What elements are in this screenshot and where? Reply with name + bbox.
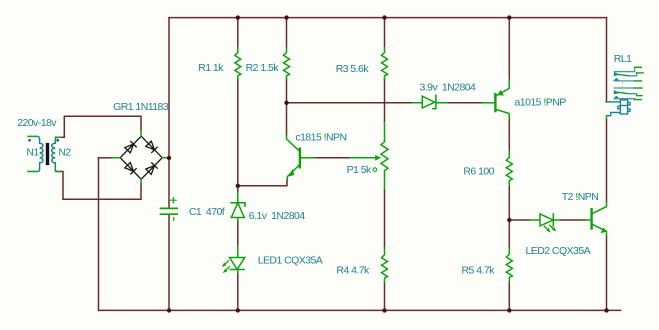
wire bridge minus horizontal [99,157,113,159]
bridge vertex stubs green [112,130,169,184]
resistor R4 [382,248,388,283]
wire R3 column top [384,18,386,48]
svg-text:LED1 CQX35A: LED1 CQX35A [258,255,323,267]
wire R2 column top [286,18,288,48]
potentiometer P1 [381,122,388,189]
wire left vertical from bridge minus to bottom rail [98,158,100,311]
LED2 [529,214,561,226]
transistor Q1 emitter arrow [288,168,295,177]
transistor Q2 emitter arrow PNP [497,90,504,96]
wire diode D2 to a1015 base [447,102,482,104]
wire R1 bottom to emitter node [237,79,239,186]
wire P1 bottom to R4 top [384,189,386,248]
svg-text:6.1v 1N2804: 6.1v 1N2804 [249,210,306,222]
capacitor C1 minus tick [173,218,175,221]
transformer N2 terminal stubs [56,137,61,171]
wire c1815 base to P1 wiper middle segment [315,157,351,159]
wire relay coil bottom to T2 collector [606,119,608,202]
bridge rectifier GR1 diamond [120,136,162,179]
relay RL1 coil rectangle [618,100,631,114]
transformer phase dot N2 [56,139,59,142]
wire transformer N2 top to bridge top vertex [61,116,142,137]
wire base node to diode D2 [287,102,414,104]
transistor Q1 c1815 base lead [300,157,315,159]
resistor R2 [284,48,290,80]
svg-text:RL1: RL1 [614,53,632,65]
bridge diode top-right [146,141,157,152]
svg-text:R4 4.7k: R4 4.7k [336,264,370,276]
wire emitter node horizontal [238,180,287,186]
wire a1015 collector to R6 [508,119,510,152]
transformer phase dot N1 [28,139,31,142]
transistor Q1 c1815 body bar [299,149,301,168]
transistor Q3 T2 body bar [590,209,592,228]
svg-text:GR1 1N1183: GR1 1N1183 [113,101,169,113]
transistor Q1 c1815 emitter lead [287,166,298,180]
svg-text:R2 1.5k: R2 1.5k [246,62,280,74]
wire LED2 node to LED2 anode [509,219,529,221]
resistor R6 [506,151,512,185]
svg-text:LED2 CQX35A: LED2 CQX35A [526,245,591,257]
wire bottom ground rail [99,309,621,311]
svg-text:220v-18v: 220v-18v [17,117,57,129]
svg-text:c1815 !NPN: c1815 !NPN [295,131,346,143]
bridge diode top-left [125,141,136,152]
relay RL1 contact 2 lower throw [614,96,620,99]
transistor Q1 c1815 collector lead [287,135,299,150]
LED2 light arrows [544,225,554,230]
relay RL1 contact 1 lower throw [614,78,620,81]
wire R5 bottom to ground rail [508,282,510,311]
capacitor C1 [161,208,178,214]
svg-text:T2 !NPN: T2 !NPN [562,191,598,203]
svg-text:a1015 !PNP: a1015 !PNP [515,97,567,109]
relay RL1 contact 1 arm [614,72,620,76]
wire relay column from top rail to coil left [606,18,608,102]
zener diode D1 6.1v [231,193,245,221]
relay RL1 contact 2 upper throw [615,87,635,89]
relay RL1 coil bottom wire [607,113,621,116]
wire top positive rail [169,17,607,19]
wire R3 bottom to P1 top [384,79,386,122]
svg-text:R5 4.7k: R5 4.7k [462,265,496,277]
svg-text:C1 470f: C1 470f [189,206,225,218]
LED1 [230,246,245,273]
resistor R5 [506,249,512,282]
wire T2 emitter to ground rail [606,236,608,310]
transistor Q2 a1015 base lead [483,102,495,104]
transistor Q3 T2 emitter lead [593,225,607,237]
wire LED2 cathode to T2 base [561,219,585,221]
svg-text:R3 5.6k: R3 5.6k [336,63,370,75]
potentiometer P1 wiper circle mark [373,168,377,172]
resistor R1 [235,48,241,80]
transformer TR primary winding N1 [35,136,43,171]
LED1 light arrows [224,261,229,271]
transistor Q3 emitter arrow [601,228,607,234]
wire zener D1 top stub maroon [237,186,239,193]
svg-text:N2: N2 [58,147,71,159]
transistor Q2 a1015 collector lead [497,110,510,119]
transformer N1 terminal stubs [28,136,35,171]
bridge diode bottom-right [146,163,157,174]
transistor Q2 a1015 emitter lead [497,80,510,95]
svg-text:R6 100: R6 100 [463,165,494,177]
svg-text:P1 5k: P1 5k [347,164,372,176]
wire LED1 to ground rail [237,273,239,310]
relay RL1 contact 2 arm [614,90,620,94]
wire a1015 emitter column top [508,18,510,81]
relay RL1 contact 1 upper throw [615,67,635,71]
relay RL1 linkage dashes [622,83,624,102]
wire main left vertical x169 top rail to cap [168,18,170,208]
svg-text:3.9v 1N2804: 3.9v 1N2804 [420,81,477,93]
wire LED2 node to R5 top [508,220,510,249]
transistor Q3 T2 collector lead [593,202,607,213]
wire base node down to c1815 collector [286,103,288,135]
wire R1 column top [237,18,239,48]
wire transformer N2 bottom to bridge bottom vertex [61,172,142,200]
wire zener D1 to LED1 [237,221,239,246]
transistor Q2 a1015 body bar [494,94,496,111]
zener diode D2 3.9v [413,95,447,108]
wire R6 bottom to LED2 node [508,185,510,220]
resistor R3 [382,48,388,80]
relay RL1 coil left wire [610,101,620,103]
wire cap C1 bottom to ground rail [168,215,170,311]
wire R4 bottom to ground rail [384,283,386,311]
svg-text:N1: N1 [26,147,39,159]
wire R2 bottom to base node [286,79,288,103]
potentiometer P1 wiper arrow [351,157,378,159]
svg-text:R1 1k: R1 1k [198,62,224,74]
transformer core bar [46,143,49,165]
bridge diode bottom-left [125,163,136,174]
capacitor C1 plus sign [171,198,176,203]
transformer secondary winding N2 [52,137,61,171]
transistor Q3 T2 base lead [585,219,590,221]
